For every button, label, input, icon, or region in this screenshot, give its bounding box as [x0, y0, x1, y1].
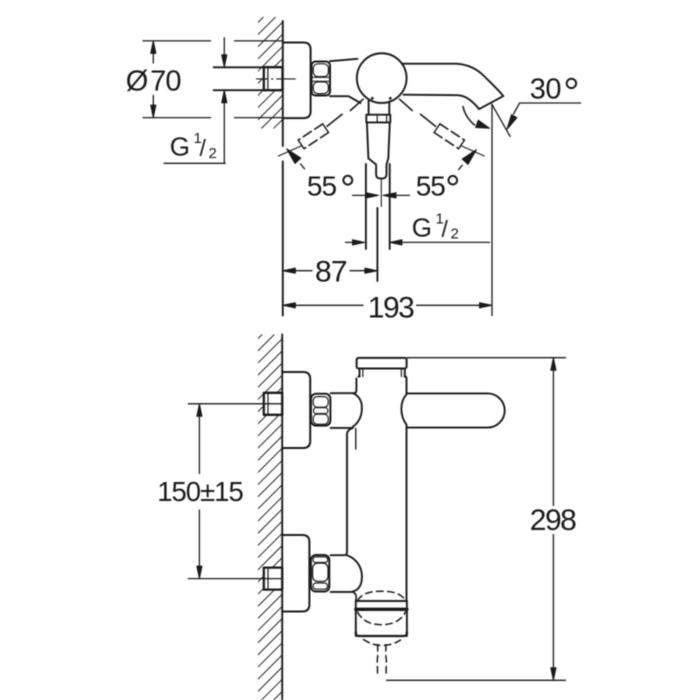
- svg-text:Ø70: Ø70: [126, 65, 181, 97]
- dim 298: [407, 357, 566, 359]
- lower in-wall pipe: [264, 568, 282, 590]
- pipe centerline: [257, 78, 296, 80]
- upper junction dome: [353, 394, 362, 427]
- svg-text:G: G: [170, 132, 190, 162]
- in-wall pipe block: [264, 67, 283, 90]
- svg-text:55: 55: [416, 170, 446, 201]
- lever handle (top drawing): [368, 101, 370, 115]
- svg-text:30: 30: [530, 73, 561, 105]
- degree sign right 55: [449, 176, 458, 185]
- center small arrows at lever (55deg dims): [353, 194, 367, 196]
- svg-text:298: 298: [530, 504, 576, 537]
- svg-text:193: 193: [368, 292, 414, 325]
- hidden dashed arcs: [358, 591, 406, 677]
- wall face line / extension line down to 193 dim: [282, 21, 284, 316]
- upper hex nut (bottom): [311, 394, 330, 426]
- dim Ø70: [143, 40, 211, 42]
- left 55 arrow: [301, 164, 305, 169]
- supply pipe G1/2 (top drawing): [214, 66, 264, 68]
- upper in-wall pipe: [264, 393, 282, 415]
- svg-text:87: 87: [315, 256, 347, 289]
- body outline right: [405, 377, 407, 394]
- body outline left top: [358, 376, 359, 378]
- body cap (bottom drawing): [357, 358, 407, 369]
- transition to wide lower body: [331, 428, 353, 555]
- spout (top drawing): [402, 64, 503, 109]
- svg-text:2: 2: [209, 145, 217, 162]
- spout swivel curved arrow: [463, 107, 475, 126]
- wall hatch (bottom drawing): [258, 335, 282, 700]
- lever centerline below tip: [380, 180, 382, 207]
- dim 150±15: [188, 403, 281, 405]
- lower hex nut (bottom): [311, 555, 329, 592]
- extension lines below lever: [365, 164, 367, 249]
- lower escutcheon (bottom): [282, 535, 309, 612]
- neck ring: [359, 369, 361, 377]
- degree sign 30: [567, 79, 576, 88]
- wall face line: [281, 335, 283, 700]
- hex nut (top drawing): [312, 62, 331, 96]
- wall hatch (top drawing): [258, 17, 283, 129]
- dim G1/2 bottom: [346, 241, 354, 243]
- check valve dome: [347, 555, 362, 591]
- upper escutcheon (bottom): [282, 372, 310, 448]
- 30deg leader: [514, 103, 581, 114]
- dashed lever position right 55deg: [400, 99, 485, 156]
- screw dots: [371, 97, 374, 100]
- inner tangent line: [355, 428, 357, 449]
- svg-text:G: G: [412, 213, 432, 243]
- degree sign left 55: [343, 176, 352, 185]
- escutcheon (top drawing): [283, 43, 311, 119]
- sphere body: [357, 53, 407, 103]
- upper junction top line: [331, 379, 357, 394]
- upper junction bottom line: [331, 427, 353, 429]
- connector cylinder to sphere: [330, 59, 358, 61]
- svg-text:150±15: 150±15: [157, 476, 243, 507]
- right 55 arrow: [459, 165, 463, 169]
- dashed lever position left 55deg: [278, 99, 363, 156]
- svg-text:/: /: [442, 216, 449, 242]
- svg-text:/: /: [200, 135, 207, 161]
- dim G1/2 top: [223, 38, 225, 54]
- dim 193: [283, 303, 296, 308]
- svg-text:2: 2: [451, 226, 459, 243]
- outlet cup: [356, 600, 407, 602]
- dim 87: [283, 268, 296, 273]
- svg-text:55: 55: [307, 170, 337, 201]
- spout (bottom drawing, side stadium): [407, 393, 505, 427]
- 30deg reference lines at spout tip: [491, 104, 493, 315]
